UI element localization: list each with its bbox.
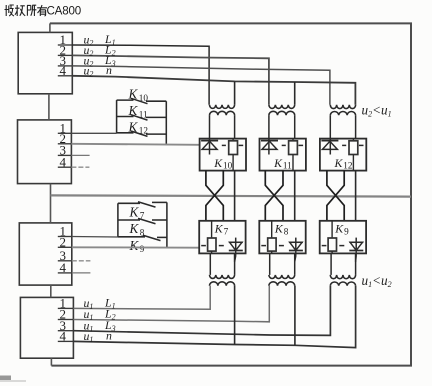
svg-text:K: K bbox=[129, 238, 140, 253]
secondary winding bbox=[269, 111, 295, 115]
contact K10 bbox=[117, 87, 167, 104]
pin 2 bbox=[58, 143, 72, 145]
svg-text:K: K bbox=[129, 221, 140, 236]
relay box K11 bbox=[260, 139, 306, 171]
pin 1 bbox=[58, 132, 72, 134]
svg-text:K: K bbox=[274, 222, 284, 236]
wire u2 L3 bbox=[72, 66, 330, 105]
wire u1 L1 bbox=[73, 286, 210, 310]
connector XT1 (u2) bbox=[18, 32, 72, 94]
contact group K10/K11/K12 left vertical bbox=[116, 100, 118, 133]
relay box K10 bbox=[200, 139, 246, 171]
svg-text:u2<u1: u2<u1 bbox=[362, 103, 392, 119]
pin 4 bbox=[58, 166, 72, 168]
primary winding bbox=[269, 282, 295, 286]
wire u2 L1 bbox=[72, 45, 209, 105]
contact K7 bbox=[118, 202, 167, 221]
wire secondary leads bbox=[330, 253, 332, 275]
wire X crossing column 2 bbox=[265, 171, 283, 221]
wire X crossing column 1 bbox=[206, 171, 223, 221]
connector XT4 (u1) bbox=[20, 296, 73, 359]
contact K12 bbox=[117, 119, 167, 136]
svg-text:7: 7 bbox=[224, 226, 229, 236]
svg-text:K: K bbox=[213, 156, 223, 170]
primary winding bbox=[210, 282, 235, 286]
transformer T2 (upper, u2 side) bbox=[269, 105, 295, 139]
wire secondary leads bbox=[209, 253, 211, 275]
secondary winding bbox=[210, 275, 235, 279]
pin 2 bbox=[58, 54, 73, 56]
wire u2 n bbox=[72, 76, 355, 105]
wire box2 pin2 to K10 box bbox=[71, 144, 199, 145]
wire box3-box4 stub bbox=[50, 285, 52, 297]
wire secondary leads bbox=[329, 115, 331, 138]
svg-text:CA800: CA800 bbox=[47, 5, 81, 18]
secondary winding bbox=[269, 275, 295, 279]
pin 1 bbox=[58, 44, 73, 46]
wire box3 pin4 stub bbox=[72, 272, 91, 274]
svg-text:n: n bbox=[106, 63, 112, 77]
transformer T3 (upper, u2 side) bbox=[330, 105, 355, 139]
transformer T5 (lower, u1 side) bbox=[269, 253, 295, 285]
svg-text:4: 4 bbox=[60, 63, 67, 78]
svg-text:4: 4 bbox=[60, 260, 67, 275]
svg-text:4: 4 bbox=[60, 329, 67, 344]
wire u1 L3 bbox=[73, 286, 330, 336]
primary winding bbox=[269, 105, 295, 109]
svg-text:9: 9 bbox=[344, 226, 349, 236]
pin 4 bbox=[58, 340, 74, 342]
wire box2 pin3 stub bbox=[71, 154, 89, 156]
svg-text:12: 12 bbox=[343, 161, 353, 171]
wire coil K11 to K8 box bbox=[294, 171, 296, 221]
contact group right vertical bbox=[165, 101, 167, 144]
pin 3 bbox=[58, 65, 73, 67]
wire n to T1 primary bbox=[234, 81, 236, 104]
contact group K7/K8/K9 left vertical bbox=[117, 203, 119, 237]
transformer T1 (upper, u2 side) bbox=[210, 105, 235, 139]
wire box1 top stub bbox=[49, 23, 51, 32]
svg-text:K: K bbox=[334, 156, 344, 170]
wire secondary leads bbox=[209, 115, 211, 138]
header text 版权所有 (drawn strokes) bbox=[5, 5, 48, 16]
pin 3 bbox=[58, 330, 74, 332]
wire box2-box3 stub bbox=[50, 184, 52, 223]
primary winding bbox=[210, 105, 235, 109]
wire box3 pin1 feed bbox=[72, 236, 118, 239]
contact K9 bbox=[118, 235, 167, 254]
wire T4 secondary right to n bbox=[234, 286, 236, 345]
wire box3 pin2 to K7 box bbox=[72, 246, 199, 248]
svg-text:u1<u2: u1<u2 bbox=[362, 273, 392, 289]
wire u2 L2 bbox=[72, 55, 269, 104]
svg-text:K: K bbox=[214, 222, 224, 236]
wire n to T2 primary bbox=[294, 82, 296, 105]
secondary winding bbox=[210, 111, 235, 115]
wire coil K10 to K7 box bbox=[234, 171, 236, 221]
connector XT2 bbox=[18, 120, 72, 184]
wire coil K12 to K9 box bbox=[355, 171, 357, 221]
svg-text:10: 10 bbox=[223, 161, 233, 171]
wire u1 L2 bbox=[73, 286, 269, 322]
svg-text:n: n bbox=[106, 329, 112, 343]
wire u1 n bbox=[73, 286, 355, 348]
contact group right vertical bbox=[166, 202, 168, 247]
wire secondary leads bbox=[269, 253, 271, 275]
svg-text:K: K bbox=[129, 205, 140, 220]
wire X crossing column 3 bbox=[327, 171, 344, 221]
svg-text:K: K bbox=[334, 222, 344, 236]
wire mid rail (box2 bottom to right border) bbox=[51, 195, 412, 196]
pin 1 bbox=[58, 236, 72, 238]
secondary winding bbox=[330, 111, 355, 115]
wire box4 bottom stub bbox=[50, 358, 52, 365]
primary winding bbox=[330, 282, 355, 286]
transformer T4 (lower, u1 side) bbox=[210, 253, 235, 285]
wire box1-box2 stub bbox=[48, 94, 50, 120]
svg-text:K: K bbox=[273, 156, 283, 170]
svg-text:K: K bbox=[128, 103, 139, 118]
secondary winding bbox=[330, 275, 355, 279]
svg-text:8: 8 bbox=[284, 226, 289, 236]
svg-text:10: 10 bbox=[139, 93, 149, 103]
svg-text:11: 11 bbox=[283, 161, 292, 171]
pin 1 bbox=[58, 307, 74, 309]
connector XT3 bbox=[19, 223, 72, 285]
relay box K12 bbox=[320, 139, 366, 171]
contact K8 bbox=[118, 218, 167, 237]
svg-text:K: K bbox=[128, 87, 139, 102]
pin 2 bbox=[58, 319, 74, 321]
wire secondary leads bbox=[268, 115, 270, 138]
relay box K9 bbox=[320, 221, 366, 262]
svg-text:4: 4 bbox=[60, 154, 67, 169]
svg-text:9: 9 bbox=[140, 244, 145, 254]
svg-text:12: 12 bbox=[139, 126, 149, 136]
wire outer loop (box1 top to box4 bottom via right border) bbox=[50, 23, 411, 365]
pin 2 bbox=[58, 246, 72, 248]
primary winding bbox=[330, 105, 355, 109]
transformer T6 (lower, u1 side) bbox=[330, 253, 355, 285]
wire box3 pin3 stub bbox=[72, 260, 91, 262]
pin 3 bbox=[58, 154, 72, 156]
pin 3 bbox=[58, 260, 72, 262]
scan smudge bottom-left edge bbox=[0, 376, 11, 381]
relay box K7 bbox=[199, 221, 245, 262]
wire box2 pin1 feed bbox=[71, 132, 116, 134]
svg-text:K: K bbox=[128, 119, 139, 134]
contact K11 bbox=[117, 103, 167, 120]
svg-text:11: 11 bbox=[139, 109, 148, 119]
wire box2 pin4 stub bbox=[71, 166, 89, 168]
relay box K8 bbox=[259, 221, 305, 262]
pin 4 bbox=[58, 272, 72, 274]
pin 4 bbox=[58, 75, 73, 77]
wire T5 secondary right to n bbox=[294, 286, 296, 346]
